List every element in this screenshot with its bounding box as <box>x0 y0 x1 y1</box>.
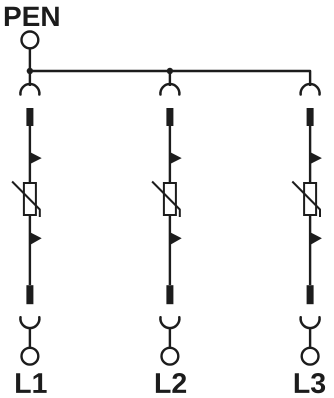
disconnect indicator arrow L1 upper <box>30 152 41 164</box>
plug contact bar top L1 <box>26 108 33 126</box>
wire L3 upper <box>309 126 311 183</box>
wire pin stem L2 <box>169 327 171 347</box>
wire pin stem L1 <box>29 327 31 347</box>
wire L1 upper <box>29 126 31 183</box>
varistor L3 body <box>304 183 316 215</box>
plug contact bar top L2 <box>166 108 173 126</box>
plug contact bar bottom L1 <box>26 285 33 304</box>
label L1 <box>16 373 47 393</box>
varistor L2 body <box>164 183 176 215</box>
plug contact bar bottom L3 <box>307 285 314 304</box>
terminal L3 circle <box>302 348 319 365</box>
disconnect indicator arrow L3 lower <box>311 232 322 244</box>
varistor L1 body <box>24 183 36 215</box>
wire pin stem L3 <box>309 327 311 347</box>
wire stub branch L2 <box>169 71 171 86</box>
plug-in socket arc L3 <box>301 84 320 94</box>
plug contact bar top L3 <box>307 108 314 126</box>
terminal L2 circle <box>162 348 179 365</box>
label L3 <box>295 373 325 393</box>
wire L1 lower <box>29 215 31 285</box>
junction node at branch L2 <box>167 68 173 74</box>
plug-in socket arc L1 <box>20 84 39 94</box>
wire stub branch L1 <box>29 71 31 86</box>
varistor L3 diagonal stroke <box>292 182 320 218</box>
disconnect indicator arrow L2 upper <box>170 152 181 164</box>
wire L2 lower <box>169 215 171 285</box>
junction node at PEN branch <box>27 68 33 74</box>
wire PEN bus with corner down to branch L3 <box>30 71 310 86</box>
varistor L2 diagonal stroke <box>152 182 180 218</box>
disconnect indicator arrow L3 upper <box>311 152 322 164</box>
wire PEN to bus <box>29 48 31 71</box>
wire L2 upper <box>169 126 171 183</box>
plug-in pin arc L1 <box>20 317 39 328</box>
terminal PEN circle <box>22 32 39 49</box>
disconnect indicator arrow L1 lower <box>30 232 41 244</box>
wire L3 lower <box>309 215 311 285</box>
plug contact bar bottom L2 <box>166 285 173 304</box>
disconnect indicator arrow L2 lower <box>170 232 181 244</box>
terminal L1 circle <box>22 348 39 365</box>
plug-in socket arc L2 <box>160 84 179 94</box>
label L2 <box>156 373 186 393</box>
label PEN <box>5 7 59 26</box>
plug-in pin arc L3 <box>301 317 320 328</box>
plug-in pin arc L2 <box>160 317 179 328</box>
varistor L1 diagonal stroke <box>12 182 40 218</box>
